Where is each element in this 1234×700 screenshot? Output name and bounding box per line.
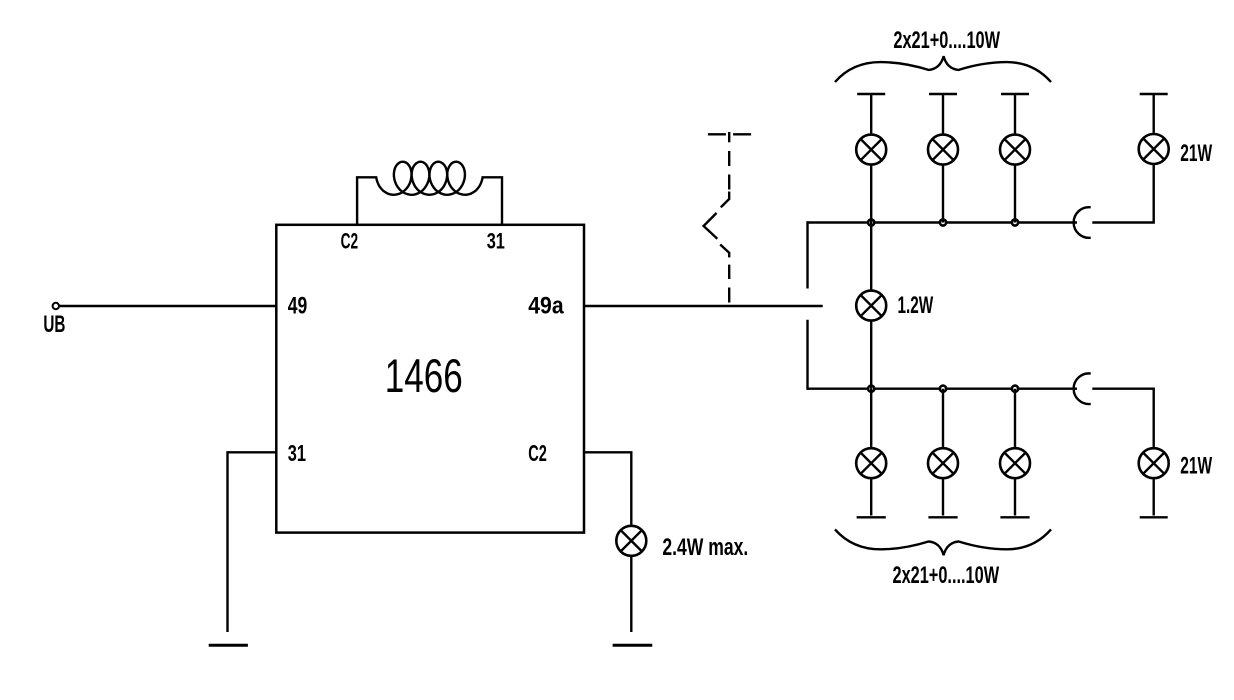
- switch S1 dashed bar: [708, 133, 751, 135]
- svg-text:2.4W max.: 2.4W max.: [662, 535, 748, 561]
- junction ring B3: [1012, 386, 1018, 392]
- lamp E2: [928, 135, 958, 165]
- lamp E3 terminal bar: [1001, 93, 1029, 95]
- svg-text:49a: 49a: [528, 294, 564, 320]
- lamp E5 pilot 1.2W: [856, 291, 886, 321]
- lamp E8: [1000, 448, 1030, 478]
- lamp E10 wire bottom: [1152, 478, 1154, 515]
- svg-text:UB: UB: [43, 312, 65, 338]
- junction ring A3: [1012, 219, 1018, 225]
- lamp E6: [856, 448, 886, 478]
- relay box U1 1466: [276, 225, 584, 533]
- junction ring A2: [940, 219, 946, 225]
- wire bus top: [808, 221, 1078, 223]
- wire pin 31 to ground: [228, 452, 277, 632]
- lamp E8 terminal bar: [1000, 516, 1029, 518]
- junction ring B2: [940, 386, 946, 392]
- lamp E7: [928, 448, 958, 478]
- svg-text:1.2W: 1.2W: [898, 293, 934, 319]
- lamp E2 wires: [942, 94, 944, 223]
- svg-text:49: 49: [288, 294, 308, 320]
- lamp E4 2.4W: [616, 526, 646, 556]
- lamp E7 terminal bar: [928, 516, 957, 518]
- lamp E3 wires: [1014, 94, 1016, 223]
- lamp E1 wires: [870, 94, 872, 223]
- lamp E6 wires: [870, 389, 872, 516]
- ground E4: [613, 644, 653, 647]
- lamp E1: [856, 135, 886, 165]
- socket arc top: [1074, 207, 1091, 238]
- lamp E10: [1139, 448, 1169, 478]
- lamp E8 wires: [1014, 389, 1016, 516]
- brace bottom: [835, 529, 1051, 555]
- coil L1 between C2 and 31: [357, 162, 502, 225]
- connector bar lower: [806, 320, 808, 390]
- socket arc bottom: [1074, 373, 1091, 404]
- svg-text:21W: 21W: [1180, 141, 1212, 167]
- connector bar upper: [806, 221, 808, 288]
- brace top: [835, 56, 1051, 82]
- lamp E9: [1139, 134, 1169, 164]
- wire UB to pin 49: [59, 305, 276, 307]
- lamp E10 terminal bar: [1140, 516, 1168, 518]
- lamp E3: [1000, 135, 1030, 165]
- switch S1 dashed linkage: [704, 151, 730, 303]
- lamp E5 wires: [870, 223, 872, 389]
- lamp E4 wire to ground: [630, 556, 632, 632]
- lamp E6 terminal bar: [857, 516, 886, 518]
- wire socket to lamp E10: [1092, 389, 1153, 449]
- lamp E9 wire top: [1152, 94, 1154, 134]
- svg-text:31: 31: [288, 440, 306, 466]
- svg-text:1466: 1466: [385, 350, 463, 403]
- svg-text:2x21+0....10W: 2x21+0....10W: [893, 563, 1000, 589]
- junction ring A1: [868, 219, 874, 225]
- lamp E7 wires: [942, 389, 944, 516]
- svg-text:C2: C2: [341, 229, 359, 254]
- wire bus bottom: [808, 388, 1078, 390]
- lamp E2 terminal bar: [929, 93, 957, 95]
- wire pin C2 to lamp E4: [584, 452, 631, 526]
- terminal UB: [53, 303, 59, 309]
- svg-text:2x21+0....10W: 2x21+0....10W: [893, 28, 1000, 54]
- svg-text:31: 31: [487, 229, 505, 254]
- lamp E9 terminal bar: [1140, 93, 1168, 95]
- wire pin 49a output: [584, 305, 823, 307]
- ground left: [209, 644, 248, 647]
- switch S1 tick: [728, 132, 730, 142]
- svg-text:21W: 21W: [1180, 453, 1212, 479]
- svg-text:C2: C2: [528, 440, 547, 466]
- lamp E1 terminal bar: [857, 93, 885, 95]
- wire socket to lamp E9: [1092, 164, 1153, 223]
- junction ring B1: [868, 386, 874, 392]
